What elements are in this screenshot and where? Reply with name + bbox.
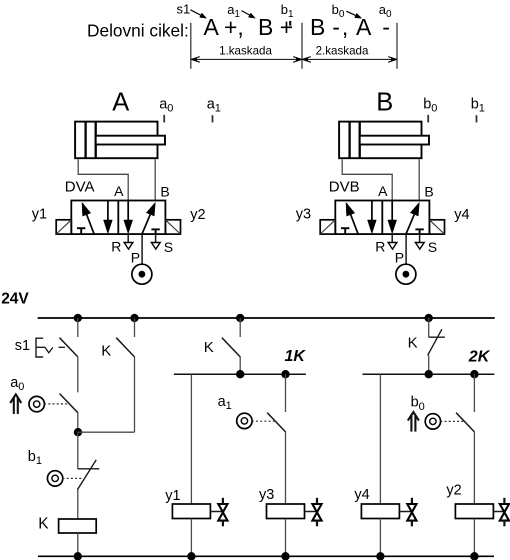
cylinder B body	[339, 122, 421, 159]
valve DVA left position: flow P to A	[86, 213, 94, 234]
limit switch contact b1 (NC)	[78, 468, 100, 470]
cascade bus 2K	[363, 373, 495, 375]
sensor position mark ('a', '0')	[163, 115, 165, 123]
svg-text:K: K	[408, 335, 418, 352]
svg-text:R: R	[375, 239, 385, 255]
wire 1K bus to contact a1	[285, 374, 287, 412]
relay contact K (NC, cascade 2K)	[429, 336, 445, 338]
wire junction to b1	[77, 432, 79, 469]
valve DVA right position: flow P to B	[142, 213, 151, 234]
solenoid pilot y1	[56, 220, 71, 234]
svg-text:a0: a0	[379, 2, 392, 20]
wire junction to K contact branch	[78, 431, 135, 433]
arrow s1 to A	[191, 10, 203, 16]
wire coil y2 to ground rail	[473, 519, 475, 557]
relay coil K	[59, 519, 97, 533]
sensor roller b0	[425, 414, 440, 429]
wire coil K to ground rail	[77, 533, 79, 556]
cascade bar 2	[301, 23, 303, 69]
valve DVA left position: flow B to S	[107, 201, 109, 222]
svg-text:S: S	[428, 239, 437, 255]
junction node rail/K-1K	[236, 314, 244, 322]
svg-text:y3: y3	[259, 487, 274, 503]
relay contact K (NO, cascade 1K)	[222, 338, 240, 357]
cylinder B piston	[348, 122, 350, 159]
valve DVB left position: blocked port R	[344, 228, 346, 234]
wire coil y1 to ground rail	[190, 519, 192, 557]
svg-text:B: B	[424, 184, 433, 200]
solenoid pilot y3	[320, 220, 335, 234]
actuated arrow for b0	[410, 415, 412, 432]
actuated arrow for a0	[13, 397, 15, 414]
svg-text:K: K	[101, 343, 111, 360]
valve DVA position divider	[117, 201, 119, 235]
exhaust port R	[391, 234, 393, 242]
wire a1 to coil y3	[285, 432, 287, 505]
junction node rail/s1	[74, 314, 82, 322]
valve DVA body	[71, 201, 165, 235]
junction node 1K/y3-branch	[281, 370, 289, 378]
sensor roller a1	[237, 413, 252, 428]
svg-text:P: P	[395, 249, 404, 265]
supply rail 24V	[38, 317, 495, 319]
svg-text:DVA: DVA	[65, 179, 95, 196]
valve DVB position divider	[381, 201, 383, 235]
exhaust port S	[419, 234, 421, 242]
wire rail to K contact of cascade 1K	[239, 318, 241, 337]
svg-text:y2: y2	[446, 483, 461, 499]
svg-text:s1: s1	[15, 338, 30, 354]
relay contact K (NO, self-holding)	[116, 338, 134, 357]
wire rail to s1	[77, 318, 79, 337]
arrow b1 down	[289, 21, 291, 26]
wire rail to K contact	[134, 318, 136, 337]
wire b1 to relay coil K	[77, 489, 79, 519]
solenoid pilot y4	[429, 220, 444, 234]
sensor roller a0	[29, 396, 44, 411]
exhaust port S	[155, 234, 157, 242]
svg-text:B: B	[160, 184, 169, 200]
switch s1 (NO, with detent)	[60, 338, 78, 357]
exhaust port R	[127, 234, 129, 242]
valve symbol of y4	[411, 498, 413, 505]
valve DVA left position: blocked port R	[80, 228, 82, 234]
svg-text:y2: y2	[190, 207, 205, 223]
valve DVB left position: flow P to A	[350, 213, 358, 234]
svg-text:DVB: DVB	[329, 179, 360, 196]
wire 1K bus to coil y1	[190, 374, 192, 504]
svg-text:1K: 1K	[285, 348, 307, 365]
limit switch contact b0 (NO, actuated)	[456, 413, 474, 432]
junction node rail/K-2K	[425, 314, 433, 322]
sensor position mark ('b', '0')	[427, 115, 429, 123]
ground rail	[38, 555, 494, 557]
link b1 sensor to contact	[63, 477, 83, 479]
valve symbol of y1	[210, 511, 223, 513]
svg-text:y4: y4	[354, 487, 369, 503]
junction node rail/K-contact	[130, 314, 138, 322]
dimension line 1.kaskada	[193, 58, 300, 60]
wire K contact down to junction	[134, 357, 136, 433]
cascade bus 1K	[174, 373, 306, 375]
solenoid pilot y2	[165, 220, 180, 234]
valve DVA right position: flow A to R	[127, 201, 129, 222]
sensor position mark ('b', '1')	[476, 115, 478, 122]
svg-text:B: B	[376, 88, 393, 116]
junction node ground/y3	[281, 552, 289, 560]
svg-text:b0: b0	[411, 395, 425, 413]
wire 2K bus to coil y4	[379, 374, 381, 504]
pressure source P	[405, 234, 407, 264]
sensor roller b1	[47, 471, 62, 486]
arrow b0 to A	[346, 11, 357, 16]
svg-text:b1: b1	[471, 96, 485, 114]
valve DVB right position: flow A to R	[391, 201, 393, 222]
junction node ground/K-coil	[74, 552, 82, 560]
valve DVB body	[335, 201, 429, 235]
svg-text:a0: a0	[159, 96, 173, 114]
junction node 1K/K	[236, 370, 244, 378]
cylinder A piston	[84, 122, 86, 159]
limit switch contact a0 (NO, actuated)	[60, 394, 78, 413]
arrow a1 to B	[242, 11, 252, 16]
solenoid coil y2	[455, 504, 493, 519]
svg-text:b0: b0	[423, 96, 437, 114]
svg-text:K: K	[204, 339, 214, 356]
wire s1 to a0	[77, 357, 79, 393]
junction node ground/y4	[376, 552, 384, 560]
wire K NC contact to 2K bus	[428, 355, 430, 374]
valve DVB right position: blocked port S	[419, 229, 421, 234]
solenoid coil y4	[361, 504, 399, 519]
wire cylinder A rod port to valve port B	[154, 159, 156, 200]
cylinder B piston rod	[360, 136, 429, 145]
svg-text:y4: y4	[454, 207, 469, 223]
wire b0 to coil y2	[473, 432, 475, 505]
svg-text:A: A	[378, 183, 388, 199]
cylinder A body	[75, 122, 157, 159]
junction node ground/y1	[187, 552, 195, 560]
svg-text:24V: 24V	[1, 291, 29, 308]
junction node 2K/K	[425, 370, 433, 378]
svg-text:Delovni cikel:: Delovni cikel:	[87, 21, 189, 41]
wire coil y4 to ground rail	[379, 519, 381, 557]
valve symbol of y3	[316, 498, 318, 505]
cascade bar 3	[396, 23, 398, 69]
junction node 2K/y2-branch	[470, 370, 478, 378]
svg-text:y1: y1	[32, 207, 47, 223]
link a0 sensor to contact	[44, 403, 68, 405]
wire cylinder B rod port to valve port B	[418, 159, 420, 200]
valve DVA right position: blocked port S	[155, 229, 157, 234]
solenoid coil y1	[172, 504, 210, 519]
junction node ground/y2	[470, 552, 478, 560]
dimension line 2.kaskada	[304, 58, 395, 60]
svg-text:B: B	[310, 14, 325, 40]
svg-text:a1: a1	[218, 394, 232, 412]
svg-text:s1: s1	[177, 2, 191, 17]
svg-text:b1: b1	[28, 449, 42, 467]
wire cylinder A cap port to valve port A	[78, 159, 128, 200]
limit switch contact a1 (NO)	[267, 413, 285, 432]
solenoid coil y3	[267, 504, 305, 519]
valve DVB right position: flow P to B	[406, 213, 415, 234]
svg-text:1.kaskada: 1.kaskada	[219, 44, 272, 57]
wire a0 to junction	[77, 412, 79, 432]
svg-text:a1: a1	[207, 96, 221, 114]
svg-text:y1: y1	[165, 488, 180, 504]
svg-text:A: A	[112, 88, 129, 116]
valve DVB left position: flow B to S	[371, 201, 373, 222]
junction node a0/K-contact	[74, 428, 82, 436]
svg-text:K: K	[38, 516, 49, 533]
svg-text:2.kaskada: 2.kaskada	[316, 44, 369, 57]
svg-text:y3: y3	[296, 207, 311, 223]
pressure source P	[141, 234, 143, 264]
s1 detent bracket	[36, 338, 43, 357]
sensor position mark ('a', '1')	[212, 115, 214, 122]
wire coil y3 to ground rail	[285, 519, 287, 557]
svg-text:2K: 2K	[468, 349, 491, 366]
svg-text:S: S	[164, 239, 173, 255]
svg-text:R: R	[111, 239, 121, 255]
valve symbol of y2	[503, 498, 505, 505]
link b0 sensor to contact	[440, 420, 464, 422]
svg-text:A: A	[114, 183, 124, 199]
svg-text:a0: a0	[10, 375, 24, 393]
cylinder A piston rod	[96, 136, 165, 145]
link a1 sensor to contact	[252, 420, 276, 422]
wire cylinder B cap port to valve port A	[342, 159, 392, 200]
svg-text:P: P	[131, 249, 140, 265]
wire 2K bus to contact b0	[473, 374, 475, 412]
wire rail to K NC contact	[428, 318, 430, 337]
wire K contact to 1K bus	[239, 357, 241, 375]
cascade bar 1	[190, 23, 192, 69]
